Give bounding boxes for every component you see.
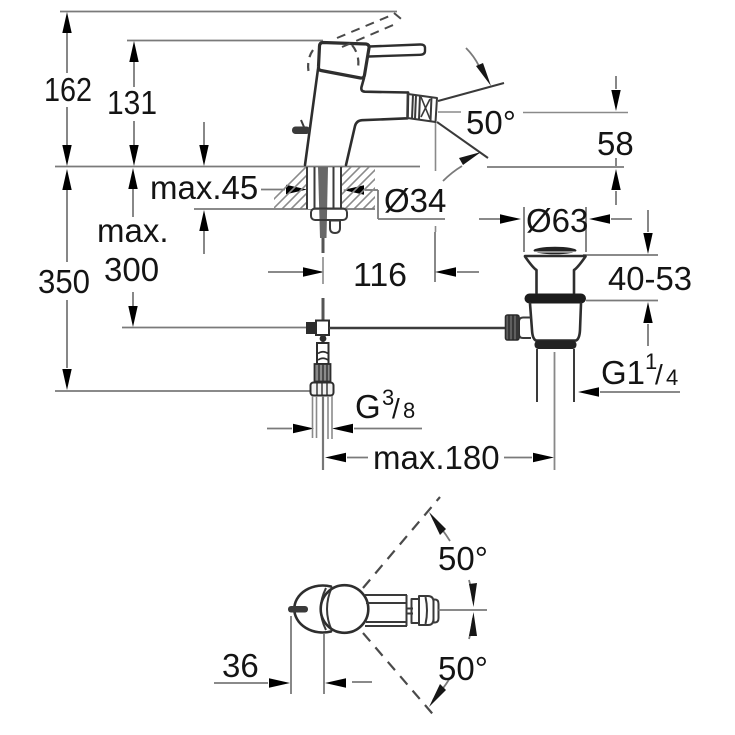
swivel dashed line lower bbox=[363, 633, 437, 719]
svg-text:G: G bbox=[355, 388, 381, 425]
svg-text:Ø34: Ø34 bbox=[384, 182, 446, 219]
dimension 350 bbox=[38, 169, 90, 390]
pop-up waste top cap bbox=[534, 247, 577, 255]
tailpipe bbox=[537, 349, 574, 402]
supply tube left bbox=[313, 396, 317, 438]
angle 50 lower fan line bbox=[437, 122, 488, 158]
top view lever shaft bbox=[365, 595, 413, 626]
spout axis reference line bbox=[438, 111, 461, 113]
dimension Ø63 bbox=[479, 202, 632, 252]
svg-text:58: 58 bbox=[597, 125, 634, 162]
dimension 58 bbox=[597, 76, 634, 205]
supply tube right bbox=[328, 396, 332, 439]
svg-text:50°: 50° bbox=[438, 650, 488, 687]
pop-up waste body bbox=[530, 304, 581, 341]
dimension 40-53 bbox=[583, 210, 692, 346]
mounting washer bbox=[311, 209, 347, 221]
pull rod upper bbox=[322, 298, 325, 322]
dimension 116 bbox=[268, 232, 479, 293]
deck hatching bbox=[262, 165, 416, 211]
svg-text:350: 350 bbox=[38, 263, 90, 300]
svg-text:max.180: max.180 bbox=[373, 439, 500, 476]
top view spray head circle bbox=[321, 585, 369, 633]
label G1 1/4 with leader bbox=[578, 349, 680, 397]
aerator / outlet piece bbox=[408, 94, 438, 122]
knurled adjuster bbox=[315, 364, 331, 382]
svg-text:/: / bbox=[392, 393, 400, 424]
dimension max.180 bbox=[325, 439, 554, 476]
under-deck shank bbox=[306, 167, 342, 238]
mounting nut bbox=[330, 221, 340, 234]
top view lever end cap bbox=[419, 596, 439, 625]
top view body cylinder arcs bbox=[321, 588, 326, 630]
faucet lever (solid) bbox=[369, 44, 425, 56]
swivel dashed line upper bbox=[363, 497, 440, 588]
dimension max.45 bbox=[150, 122, 307, 254]
350 bottom reference line bbox=[55, 390, 311, 392]
svg-text:162: 162 bbox=[44, 71, 92, 108]
svg-text:36: 36 bbox=[222, 647, 259, 684]
pop-up knurled coupling nut bbox=[506, 315, 520, 340]
svg-text:131: 131 bbox=[107, 84, 157, 121]
dimension 131 bbox=[107, 41, 157, 166]
top view lever collar ring bbox=[412, 599, 420, 623]
angle 50 upper arc arrow bbox=[466, 48, 491, 86]
svg-text:G1: G1 bbox=[601, 354, 645, 391]
deck hatch bottom edge bbox=[276, 208, 375, 210]
pop-up actuator rod bbox=[329, 327, 507, 330]
angle 50 upper fan line bbox=[438, 83, 504, 101]
label G3/8 with leader bbox=[267, 385, 422, 433]
pop-up side port bbox=[519, 318, 531, 339]
pop-up waste o-ring seal bbox=[525, 294, 587, 304]
waste centerline bbox=[554, 352, 556, 470]
rod coupling bbox=[306, 321, 329, 336]
top view centerline bbox=[439, 609, 488, 611]
dimension 36 bbox=[214, 616, 372, 694]
deck bottom extension line bbox=[194, 208, 276, 210]
shank rod lower bbox=[322, 238, 325, 253]
dashed cap rotation arcs bbox=[308, 45, 358, 74]
svg-text:40-53: 40-53 bbox=[608, 260, 692, 297]
faucet centerline segment bbox=[322, 257, 324, 284]
angle 50 lower arc arrow bbox=[443, 152, 481, 181]
swivel arc upper bbox=[429, 512, 477, 607]
spout outlet drop line bbox=[435, 122, 437, 171]
max300 bottom reference line bbox=[122, 327, 306, 329]
top view pin bbox=[288, 606, 308, 613]
ref line 131 upper reference bbox=[127, 40, 323, 42]
pop-up bottom seal bbox=[535, 341, 577, 350]
faucet cap (cartridge housing) bbox=[318, 43, 369, 79]
top view body left lobe bbox=[294, 586, 331, 633]
svg-text:4: 4 bbox=[666, 365, 678, 390]
supply nut bbox=[311, 383, 334, 396]
dimension Ø34 leader right arrow bbox=[343, 182, 446, 219]
svg-text:max.45: max.45 bbox=[150, 169, 258, 206]
svg-text:max.: max. bbox=[97, 212, 169, 249]
pop-up waste flange bell bbox=[525, 256, 586, 293]
svg-text:50°: 50° bbox=[466, 104, 516, 141]
swivel arc lower bbox=[429, 612, 477, 707]
svg-text:/: / bbox=[655, 359, 663, 390]
svg-text:116: 116 bbox=[353, 256, 407, 293]
pull rod lower + ball bbox=[320, 335, 327, 344]
deck top line bbox=[55, 166, 420, 168]
deck top line right segment bbox=[487, 166, 624, 168]
svg-text:8: 8 bbox=[403, 398, 415, 423]
dashed raised lever bbox=[337, 13, 403, 47]
dimension max.300 bbox=[97, 168, 169, 327]
svg-text:50°: 50° bbox=[438, 540, 488, 577]
side pin (pop-up rod knob) bbox=[292, 120, 310, 134]
svg-text:Ø63: Ø63 bbox=[526, 202, 588, 239]
rod clamp piece bbox=[317, 343, 329, 364]
dimension 162 bbox=[44, 12, 92, 166]
faucet body bbox=[305, 69, 318, 165]
ref line top (162 upper reference) bbox=[60, 11, 397, 13]
center drain rod lower bbox=[322, 396, 324, 470]
svg-text:300: 300 bbox=[104, 251, 159, 288]
